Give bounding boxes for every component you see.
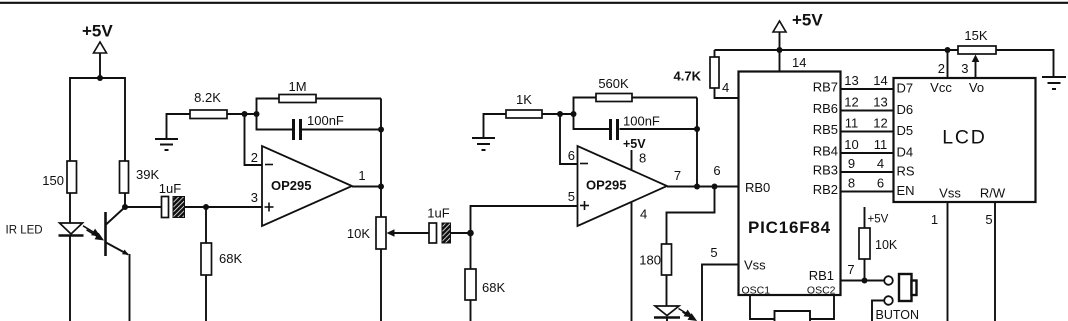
svg-text:Vo: Vo [969, 80, 984, 95]
svg-text:12: 12 [844, 95, 858, 110]
svg-text:RB0: RB0 [745, 180, 770, 195]
svg-text:6: 6 [568, 148, 575, 163]
svg-text:6: 6 [713, 163, 720, 178]
svg-text:1: 1 [358, 168, 365, 183]
svg-text:Vcc: Vcc [930, 80, 952, 95]
svg-text:10K: 10K [347, 226, 370, 241]
svg-text:4: 4 [722, 80, 729, 95]
svg-text:11: 11 [874, 137, 888, 152]
svg-text:4: 4 [877, 156, 884, 171]
svg-text:1K: 1K [516, 92, 532, 107]
svg-text:OP295: OP295 [271, 178, 311, 193]
svg-text:4: 4 [640, 207, 647, 222]
svg-text:D4: D4 [897, 145, 914, 160]
svg-text:BUTON: BUTON [876, 308, 920, 321]
svg-text:5: 5 [710, 245, 717, 260]
svg-text:OSC1: OSC1 [742, 285, 771, 297]
svg-text:RS: RS [897, 164, 915, 179]
svg-text:Vss: Vss [744, 258, 766, 273]
svg-text:OP295: OP295 [586, 178, 626, 193]
svg-text:RB7: RB7 [813, 80, 838, 95]
svg-text:RB6: RB6 [813, 101, 838, 116]
svg-text:11: 11 [845, 116, 859, 131]
svg-text:RB2: RB2 [813, 182, 838, 197]
svg-text:13: 13 [873, 95, 887, 110]
svg-text:RB1: RB1 [809, 268, 834, 283]
svg-text:1uF: 1uF [427, 206, 449, 221]
svg-text:12: 12 [873, 116, 887, 131]
svg-text:EN: EN [897, 183, 915, 198]
svg-text:14: 14 [792, 55, 806, 70]
svg-text:RB3: RB3 [813, 163, 838, 178]
svg-text:150: 150 [42, 173, 64, 188]
svg-text:14: 14 [873, 73, 887, 88]
svg-text:5: 5 [568, 189, 575, 204]
svg-text:R/W: R/W [980, 186, 1006, 201]
svg-text:4.7K: 4.7K [674, 69, 702, 84]
svg-text:+5V: +5V [792, 11, 823, 30]
svg-text:OSC2: OSC2 [807, 285, 836, 297]
svg-text:PIC16F84: PIC16F84 [748, 218, 831, 237]
svg-text:2: 2 [251, 150, 258, 165]
svg-text:100nF: 100nF [623, 114, 660, 129]
svg-text:RB4: RB4 [813, 144, 838, 159]
svg-text:+5V: +5V [82, 22, 113, 41]
svg-text:1uF: 1uF [159, 181, 181, 196]
svg-text:D6: D6 [897, 102, 914, 117]
svg-text:10K: 10K [875, 238, 898, 252]
svg-text:1M: 1M [288, 79, 306, 94]
svg-text:68K: 68K [219, 251, 242, 266]
svg-text:15K: 15K [964, 28, 987, 43]
svg-text:560K: 560K [598, 76, 629, 91]
svg-text:68K: 68K [482, 280, 505, 295]
svg-text:7: 7 [674, 168, 681, 183]
svg-text:8: 8 [848, 176, 855, 191]
svg-text:6: 6 [877, 176, 884, 191]
svg-text:LCD: LCD [942, 127, 986, 149]
svg-text:D5: D5 [897, 123, 914, 138]
svg-text:5: 5 [985, 212, 992, 227]
svg-text:13: 13 [844, 73, 858, 88]
svg-text:7: 7 [847, 262, 854, 277]
svg-text:8.2K: 8.2K [194, 90, 221, 105]
svg-text:9: 9 [848, 156, 855, 171]
svg-text:+5V: +5V [868, 214, 889, 226]
svg-text:3: 3 [961, 61, 968, 76]
svg-text:1: 1 [931, 212, 938, 227]
svg-text:8: 8 [639, 151, 646, 166]
svg-text:180: 180 [639, 253, 661, 268]
svg-text:RB5: RB5 [813, 122, 838, 137]
svg-text:2: 2 [938, 61, 945, 76]
svg-text:Vss: Vss [939, 186, 961, 201]
svg-text:D7: D7 [897, 81, 914, 96]
svg-text:39K: 39K [136, 167, 159, 182]
svg-text:10: 10 [844, 137, 858, 152]
svg-text:+5V: +5V [623, 137, 646, 151]
svg-text:3: 3 [251, 190, 258, 205]
svg-text:100nF: 100nF [307, 113, 344, 128]
svg-text:IR LED: IR LED [6, 225, 43, 237]
